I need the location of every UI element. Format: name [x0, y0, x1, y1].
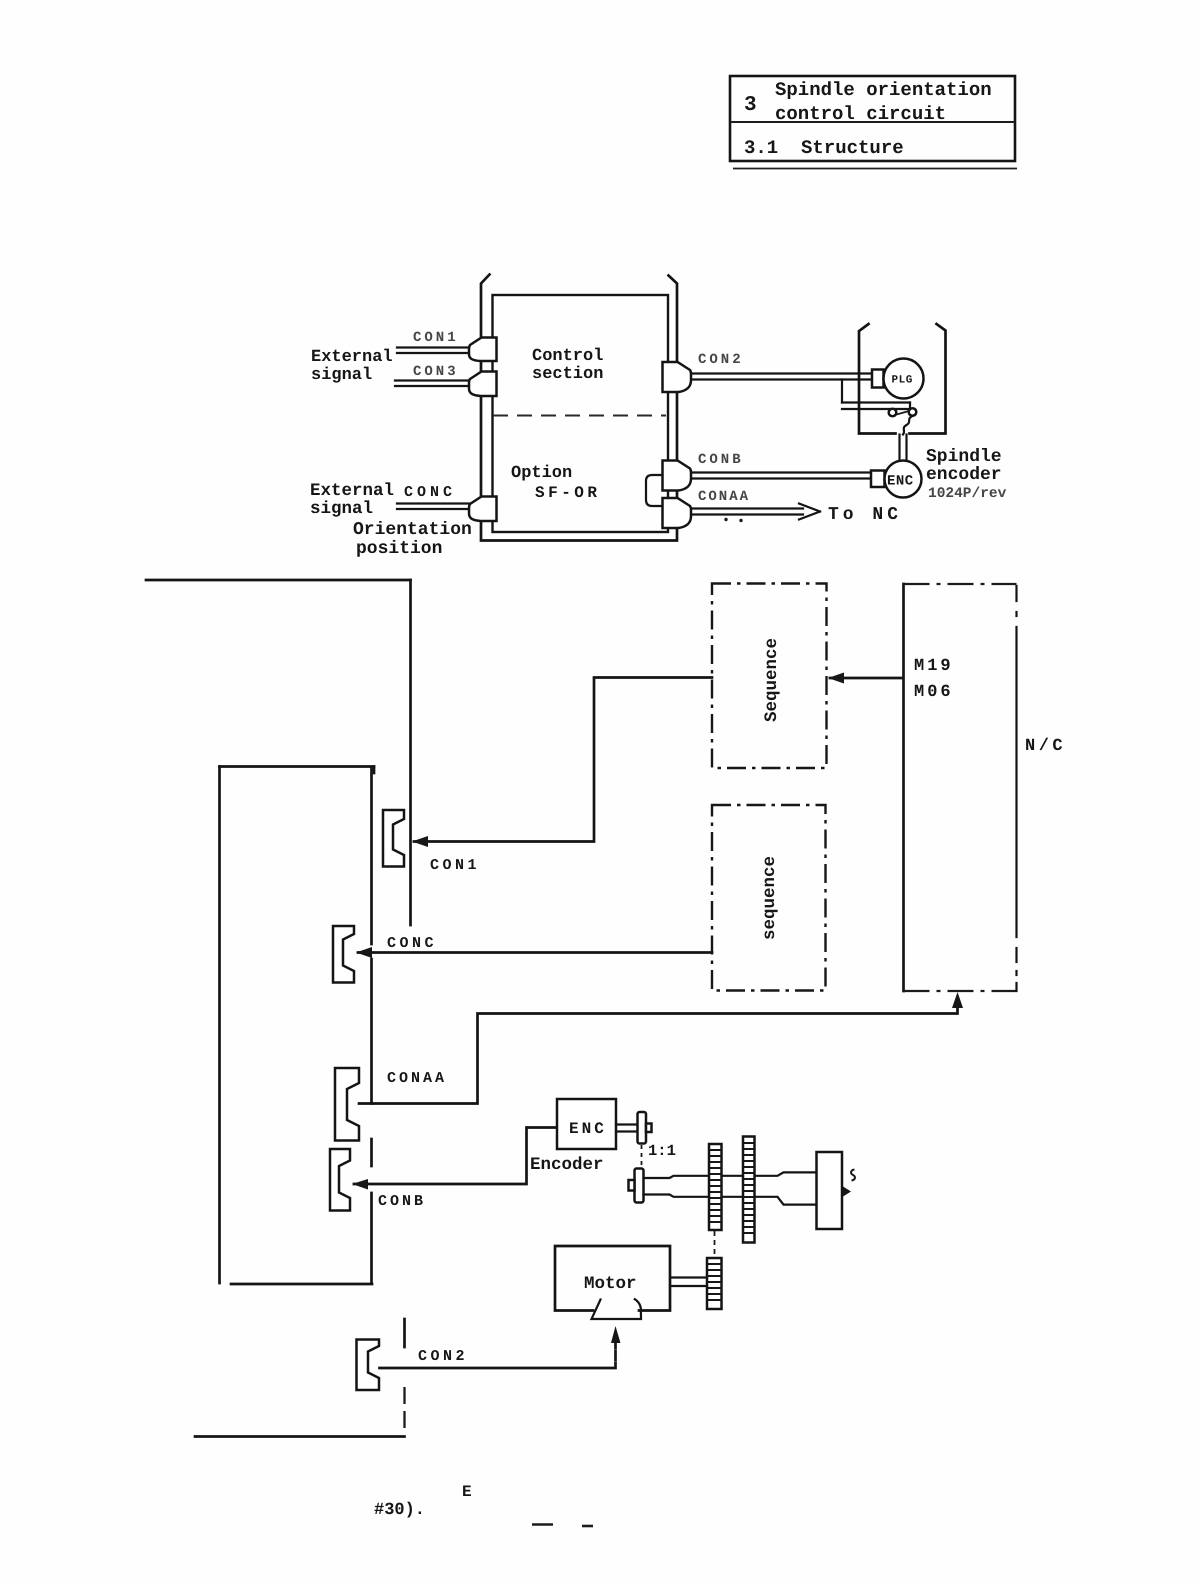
svg-text:ENC: ENC	[887, 474, 914, 490]
svg-text:Control: Control	[532, 347, 603, 366]
connector CONB upper	[663, 461, 692, 491]
svg-text:section: section	[532, 365, 603, 384]
arrowhead CON1	[412, 836, 428, 847]
svg-text:sequence: sequence	[760, 856, 780, 940]
svg-text:ENC: ENC	[569, 1120, 607, 1138]
svg-text:1024P/rev: 1024P/rev	[928, 486, 1007, 502]
svg-text:N/C: N/C	[1025, 737, 1066, 756]
PLG stub	[872, 370, 884, 388]
svg-text:position: position	[356, 539, 442, 559]
switch branch wire	[841, 380, 843, 403]
title block frame	[730, 76, 1017, 169]
connector CON2 upper	[663, 362, 692, 392]
svg-text:encoder: encoder	[926, 465, 1002, 485]
svg-text:CONB: CONB	[378, 1193, 426, 1210]
svg-text:CON2: CON2	[698, 352, 744, 368]
svg-text:#30).: #30).	[374, 1501, 425, 1520]
sequence box 2	[712, 805, 826, 991]
controller outer rail	[481, 275, 677, 541]
arrowhead sequence1	[828, 673, 844, 684]
stray dashes	[532, 1523, 553, 1526]
lower coupling flange	[635, 1169, 644, 1203]
arrowhead CONB	[352, 1179, 368, 1190]
motor box	[555, 1246, 670, 1311]
gear G1	[709, 1144, 722, 1230]
svg-text:PLG: PLG	[892, 375, 913, 387]
svg-text:control circuit: control circuit	[775, 103, 946, 125]
svg-text:CON1: CON1	[430, 857, 480, 874]
arrowhead motor	[611, 1326, 621, 1343]
svg-text:CONC: CONC	[404, 484, 456, 501]
wire top horizontal	[146, 579, 411, 582]
connector CON1 upper	[469, 338, 497, 362]
arrowhead CONC	[356, 947, 372, 958]
dashes near CON2	[403, 1319, 406, 1347]
svg-text:M19: M19	[914, 657, 954, 676]
connector CONB lower	[330, 1149, 350, 1211]
connector CONAA upper	[663, 498, 692, 528]
svg-text:External: External	[311, 348, 393, 367]
svg-text:M06: M06	[914, 683, 954, 702]
wire CON2 to motor	[380, 1342, 616, 1368]
svg-text:signal: signal	[310, 499, 373, 519]
gear G3 motor	[707, 1258, 722, 1309]
gear G2	[743, 1137, 755, 1243]
spindle tip arrow	[843, 1187, 851, 1197]
squiggle wire to ENC	[903, 416, 913, 435]
connector CONAA lower	[335, 1068, 359, 1141]
wire CON3	[395, 381, 470, 387]
arrowhead into NC bottom	[952, 992, 963, 1008]
dashed divider	[493, 415, 666, 417]
bottom wire	[195, 1435, 405, 1438]
svg-text:Orientation: Orientation	[353, 520, 472, 540]
svg-text:Spindle orientation: Spindle orientation	[775, 79, 992, 101]
ENC encoder box	[557, 1099, 616, 1149]
svg-text:Option: Option	[511, 464, 572, 483]
connector CON2 lower	[357, 1340, 380, 1391]
svg-text:Spindle: Spindle	[926, 447, 1002, 467]
wire sequence1 to CON1	[414, 678, 712, 842]
wire ENC to CONB	[354, 1128, 557, 1185]
wire vertical from top line	[409, 580, 412, 925]
wire CON1	[397, 348, 470, 354]
controller inner box	[493, 295, 669, 532]
cut-off S mark	[851, 1170, 855, 1181]
spindle machine outline	[859, 324, 946, 434]
svg-text:Encoder: Encoder	[530, 1155, 604, 1175]
N/C box left edge	[902, 584, 905, 991]
svg-text:Sequence: Sequence	[762, 638, 782, 722]
svg-text:CON1: CON1	[413, 330, 459, 346]
motor funnel skirt	[592, 1299, 642, 1319]
spindle shaft profile	[644, 1172, 817, 1204]
ENC stub	[871, 471, 885, 488]
wire CON2 to PLG	[691, 374, 872, 380]
ENC circle	[885, 461, 922, 498]
jumper loop CONB-CONAA	[646, 475, 663, 506]
svg-text:E: E	[462, 1483, 472, 1501]
svg-text:CONAA: CONAA	[698, 489, 750, 505]
connector CONC upper	[469, 497, 497, 522]
sequence box 1	[712, 584, 827, 769]
dashed link encoder to shaft	[641, 1145, 643, 1168]
svg-text:External: External	[310, 481, 394, 501]
N/C box bottom edge	[904, 990, 1017, 992]
wire NC to sequence1	[830, 677, 903, 680]
tall box right edge segments	[370, 768, 373, 1283]
svg-text:CONAA: CONAA	[387, 1070, 447, 1087]
svg-text:CONC: CONC	[387, 935, 437, 952]
svg-text:3: 3	[744, 94, 757, 117]
spindle head block	[817, 1152, 843, 1229]
arrow CONAA to NC	[691, 504, 820, 520]
dots under arrow	[724, 518, 727, 521]
N/C box top edge	[904, 583, 1017, 585]
svg-text:1:1: 1:1	[648, 1142, 676, 1160]
dashed link gear1 to motor gear	[714, 1231, 716, 1257]
motor shaft	[670, 1278, 707, 1287]
svg-text:CON2: CON2	[418, 1348, 468, 1365]
wire sequence2 to CONC	[358, 951, 712, 954]
PLG circle	[884, 359, 924, 399]
svg-text:CONB: CONB	[698, 452, 744, 468]
wire CONB to ENC	[691, 473, 871, 479]
connector CON3 upper	[469, 372, 497, 397]
svg-text:SF-OR: SF-OR	[535, 484, 601, 502]
connector CON1 lower	[383, 810, 404, 867]
svg-text:To NC: To NC	[828, 505, 902, 525]
svg-text:3.1 Structure: 3.1 Structure	[744, 137, 904, 159]
svg-text:signal: signal	[311, 366, 372, 385]
N/C box right edge	[1015, 586, 1017, 991]
wire CONAA to NC	[359, 1006, 958, 1104]
servo unit tall box	[220, 767, 375, 1285]
encoder coupling flange	[638, 1112, 647, 1144]
svg-text:Motor: Motor	[584, 1274, 637, 1294]
wire CONC upper	[397, 504, 470, 510]
ENC shaft	[616, 1125, 638, 1132]
connector CONC lower	[333, 926, 354, 983]
switch contacts	[889, 409, 897, 417]
svg-text:CON3: CON3	[413, 364, 459, 380]
